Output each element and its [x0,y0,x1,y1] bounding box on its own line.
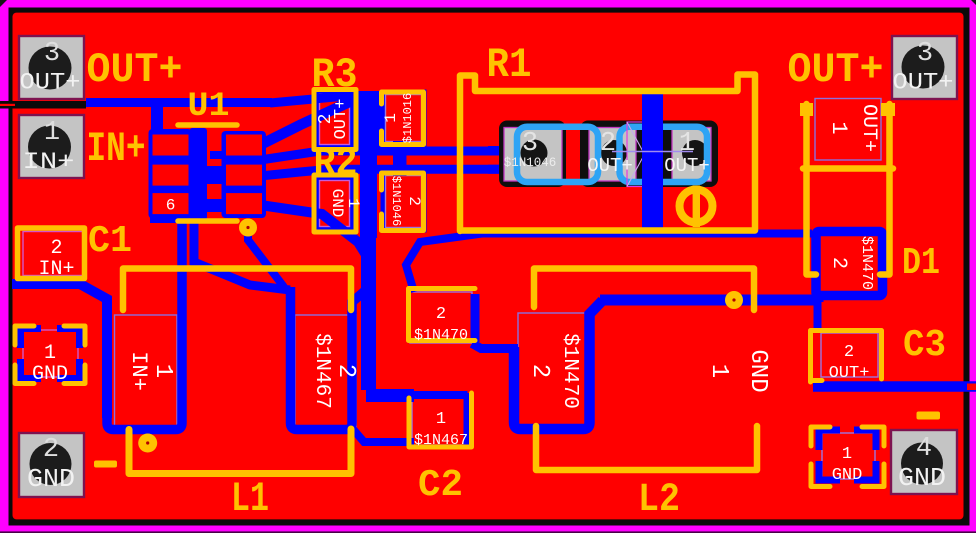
inductor L1 silk bottom bracket [129,429,351,474]
capacitor C1 pad1 thermal ring corners [21,329,80,379]
R1 keepout box right (courtyard) [620,127,708,182]
svg-text:GND: GND [27,464,75,494]
resistor R2 pad 1 [320,181,350,227]
resistor R1 outline [460,75,755,232]
capacitor C2 pad2 silk [409,289,476,341]
svg-text:$1N470: $1N470 [558,333,581,409]
svg-text:OUT+: OUT+ [788,46,884,94]
R1 pad 3 gray [504,128,562,182]
diode D1 silk crossbar [803,165,893,172]
op-amp U1 right pad field [222,131,267,218]
svg-text:2: 2 [43,435,59,465]
svg-text:3: 3 [522,129,538,159]
wire C3 pad2 bottom to board edge [813,381,976,392]
corner chamfer top-left [0,0,7,7]
U1 pad left 2 [153,165,189,186]
diode D1 pad 1 [815,99,881,161]
svg-text:1: 1 [44,342,56,365]
wire bus up to D1 pad2 ring [813,295,824,302]
left edge slot between OUT+ and IN+ pads [0,101,86,109]
resistor R3 pad 1 [386,95,422,142]
copper wedge between R1 entry stubs [483,158,499,162]
svg-text:R1: R1 [487,41,532,89]
U1 silk bottom line [178,218,237,224]
svg-text:$1N1016: $1N1016 [401,93,415,143]
capacitor C3 pad 2 [821,333,878,377]
wire T5 elbow to C2 pad1 [366,389,414,402]
U1 spine bridge row1 [210,151,222,159]
svg-text:R2: R2 [314,142,358,187]
U1 pad right 5 [226,165,262,186]
pad 4 GND bottom-right [891,430,957,494]
resistor R3 pad1 silk brackets [382,92,424,145]
pad 2 GND bottom-left [19,433,84,497]
svg-text:1: 1 [382,113,400,123]
wire via trace to L1 pad2 [248,222,284,287]
svg-text:3: 3 [917,39,933,69]
svg-text:1: 1 [705,364,732,378]
svg-text:C1: C1 [88,220,132,263]
svg-text:D1: D1 [902,242,940,285]
svg-text:OUT+: OUT+ [332,99,351,140]
capacitor C3 pad2 silk [811,331,882,383]
svg-text:1: 1 [344,198,362,208]
U1 silk top line [178,122,237,128]
wire L1 pad2 to C2 pad1 [352,428,414,442]
inductor L1 silk top bracket [123,269,351,311]
wire U1 bottom strip [150,214,184,223]
svg-text:2: 2 [844,343,854,362]
svg-text:U1: U1 [188,88,230,126]
svg-text:GND: GND [832,466,863,485]
diode D1 silk left rail [807,104,817,275]
capacitor C2 pad 2 [410,292,472,343]
capacitor C1 pad1 silk corners [15,326,85,384]
svg-text:C3: C3 [903,324,946,367]
wire $1N470 bus horizontal [600,295,818,306]
resistor R1 body black right [580,121,718,188]
capacitor C3 pad 1 [822,433,875,479]
inductor L2 silk bottom bracket [536,426,757,470]
svg-text:3: 3 [44,39,60,69]
capacitor C3 pad1 silk corners [811,427,884,487]
wire U1 fan upper diagonal [260,98,358,145]
capacitor C1 pad2 silk box [18,228,85,279]
resistor R2 pad1 silk box [314,175,356,232]
inductor L1 pad 1 [115,315,178,428]
resistor R1 body black left [499,121,566,188]
svg-text:IN+: IN+ [87,125,146,173]
wire R3 gap blob [357,91,381,148]
svg-text:2: 2 [332,364,359,378]
svg-text:OUT+: OUT+ [829,364,870,383]
resistor R2 pad 1 ring [315,176,355,232]
resistor R2 pad 2 [386,176,422,228]
resistor R3 pad 2 ring [315,90,355,150]
resistor R3 pad 1 ring [381,90,427,147]
resistor R3 pad 2 [320,95,350,145]
U1 pad right 4 [226,135,262,156]
wire L2 pad2 ring left bottom right [514,301,603,430]
svg-text:1: 1 [44,118,60,148]
R1 pad 1 drill [682,140,708,166]
pad 3 OUT+ top-left [19,36,84,99]
svg-text:2: 2 [50,237,62,260]
diode D1 silk right rail [880,104,890,275]
wire branch down to U1 left pads [151,103,163,133]
U1 spine bridge row3 [207,199,223,212]
svg-text:OUT+: OUT+ [587,155,633,177]
svg-text:C2: C2 [418,464,463,507]
U1 pad left 1 [153,135,189,156]
wire R1 pad3 entry stubs [488,151,510,170]
capacitor C1 pad 1 [23,330,78,377]
wire C2 pad1 right edge [464,393,472,445]
wire C2 pad1 top edge [410,391,468,399]
svg-text:$1N1046: $1N1046 [504,156,557,170]
svg-text:$1N1046: $1N1046 [389,176,403,226]
svg-text:IN+: IN+ [126,351,151,391]
resistor R3 pad2 silk box [314,90,356,150]
wire U1 fan to R1 pad3 lower [260,169,502,176]
R1 pad 2 gray [589,128,636,182]
wire U1 spine down to L1 pad2 [194,222,290,290]
R1 courtyard X rect [627,122,662,187]
U1 pad right 3 [226,193,262,214]
svg-text:R3: R3 [312,51,358,99]
svg-text:1: 1 [842,445,852,464]
svg-text:L2: L2 [638,478,680,523]
R1 pad 1 gray [672,128,711,182]
diode D1 pad 2 [815,231,881,296]
capacitor C2 pad 1 [412,397,470,445]
R1 pad 2 drill [601,140,627,166]
svg-text:OUT+: OUT+ [20,70,81,96]
svg-text:GND: GND [32,363,68,386]
svg-text:2: 2 [405,196,423,206]
svg-text:$1N467: $1N467 [414,432,468,449]
via at U1 bottom [239,219,257,237]
svg-text:IN+: IN+ [38,258,74,281]
wire D1 pad2 down to C3 pad2 [814,297,822,332]
polarity dash near C3 [917,412,941,420]
svg-text:GND: GND [898,463,946,493]
slot red sliver [0,104,15,106]
svg-text:2: 2 [436,305,446,324]
svg-text:OUT+: OUT+ [857,104,880,152]
wire L1 pad2 ring left bottom right [291,287,367,430]
svg-text:$1N470: $1N470 [414,327,468,344]
wire bus diagonal to R3 gap [270,95,357,103]
svg-text:4: 4 [916,434,932,464]
border tick right [967,384,976,391]
svg-text:GND: GND [328,189,346,218]
diode D1 silk top stubs [800,103,813,116]
polarity dash near L1 [94,461,117,468]
op-amp U1 spine [190,128,208,220]
wire C2 pad2 right edge [471,294,480,342]
svg-text:1: 1 [436,410,446,429]
bottom edge dark line [0,531,976,533]
svg-text:OUT+: OUT+ [893,70,954,96]
resistor R2 pad2 silk brackets [382,173,424,231]
R1 airwire horizontal [612,151,693,153]
R1 keepout box left (courtyard) [517,127,598,182]
svg-text:$1N470: $1N470 [858,236,875,290]
diode D1 pad2 thermal ring [816,232,883,296]
svg-text:2: 2 [827,257,850,269]
wire IN+ bus horizontal from pad 1 [86,98,272,107]
wire net R1 middle to D1 pad2 [655,230,812,238]
via on L1 pad1 bottom [138,434,157,453]
R1 pad 3 drill [521,140,548,167]
wire L1 pad1 ring bottom and right [107,212,182,430]
wire R1 middle vertical trace [642,93,663,237]
wire R3-1 to R2-2 connector [393,141,407,176]
wire C2 pad2 to L2 pad2 [472,344,518,349]
svg-text:OUT+: OUT+ [87,46,183,94]
svg-text:6: 6 [166,197,176,215]
inductor L2 pad 2 [518,313,592,428]
op-amp U1 left pad field [149,129,193,219]
wire vertical between R2 pads down [360,95,377,238]
U1 spine bridge row2 [205,166,223,184]
svg-text:L1: L1 [231,475,269,523]
capacitor C3 pad1 thermal ring corners [819,430,876,480]
svg-text:1: 1 [149,364,176,378]
inductor L2 silk top bracket [534,269,754,311]
svg-text:GND: GND [744,349,771,392]
capacitor C1 pad 2 [23,232,83,276]
capacitor C2 pad1 silk [409,393,472,447]
svg-text:OUT+: OUT+ [664,155,710,177]
svg-text:1: 1 [826,121,851,134]
U1 pad left 6 [153,193,189,214]
svg-text:2: 2 [526,364,553,378]
mounting screw symbol [680,190,713,223]
wire U1 fan down to C2 feed [260,205,368,258]
wire U1 fan to R1 pad3 upper [260,151,502,160]
resistor R2 pad 2 ring [381,171,427,233]
via on $1N470 bus [725,291,743,309]
wire C2 pad2 entry and net to R1 middle [406,234,660,293]
R1 courtyard X diagonals [627,122,662,187]
wire T5 down to C2 pad1 [361,236,376,390]
pad 1 IN+ left [19,115,84,178]
svg-text:IN+: IN+ [23,149,75,175]
svg-text:$1N467: $1N467 [310,333,333,409]
pad 3 OUT+ top-right [892,36,957,99]
wire C1 to L1 pad1 [12,284,107,418]
inductor L1 pad 2 [295,315,356,428]
